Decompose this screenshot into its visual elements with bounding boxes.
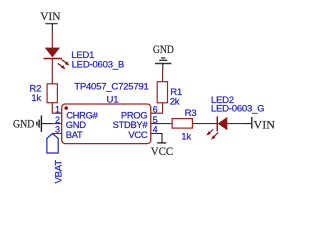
diode LED1 xyxy=(44,48,70,69)
svg-text:GND: GND xyxy=(13,119,34,131)
wire pin 5 to R3 xyxy=(151,123,172,125)
wire R3 to LED2 xyxy=(192,123,217,125)
wire LED2 to VIN port xyxy=(227,123,244,125)
wire pin 3 stub xyxy=(53,133,62,135)
IC U1 TP4057_C725791 body xyxy=(62,104,151,144)
svg-text:1k: 1k xyxy=(181,132,191,143)
ground GND (left) xyxy=(13,115,52,131)
wire GND to R1 xyxy=(162,71,164,82)
svg-text:VIN: VIN xyxy=(40,11,61,23)
svg-text:R3: R3 xyxy=(185,108,197,119)
svg-text:2k: 2k xyxy=(170,96,180,107)
wire VIN to LED1 anode xyxy=(51,31,53,48)
svg-text:U1: U1 xyxy=(107,95,119,106)
diode LED2 xyxy=(206,116,227,139)
power port VIN (right) xyxy=(252,117,276,132)
power flag VCC xyxy=(151,143,174,158)
resistor R3 xyxy=(172,119,192,129)
net flag VBAT xyxy=(47,134,65,184)
wire R2 to pin 1 xyxy=(52,103,61,114)
svg-text:LED-0603_G: LED-0603_G xyxy=(211,103,265,114)
svg-text:VCC: VCC xyxy=(128,129,147,140)
resistor R2 xyxy=(47,84,57,103)
wire pin 2 stub xyxy=(52,123,61,125)
power port VIN (top) xyxy=(40,11,61,31)
svg-text:BAT: BAT xyxy=(66,129,83,140)
svg-text:1: 1 xyxy=(55,104,60,114)
wire pin 4 to VCC xyxy=(151,133,157,135)
wire LED1 cathode to R2 xyxy=(51,59,53,84)
svg-text:2: 2 xyxy=(55,115,60,125)
svg-text:VCC: VCC xyxy=(151,146,174,158)
svg-text:GND: GND xyxy=(153,44,174,56)
svg-text:3: 3 xyxy=(55,125,60,135)
part origin dot xyxy=(64,106,68,110)
svg-text:TP4057_C725791: TP4057_C725791 xyxy=(74,82,148,93)
wire R1 to pin 6 xyxy=(151,103,163,113)
svg-text:LED-0603_B: LED-0603_B xyxy=(72,60,124,71)
svg-text:VBAT: VBAT xyxy=(54,160,65,184)
svg-text:VIN: VIN xyxy=(254,120,276,132)
resistor R1 xyxy=(157,82,167,103)
svg-text:1k: 1k xyxy=(31,93,41,104)
ground GND (top) xyxy=(153,44,174,70)
